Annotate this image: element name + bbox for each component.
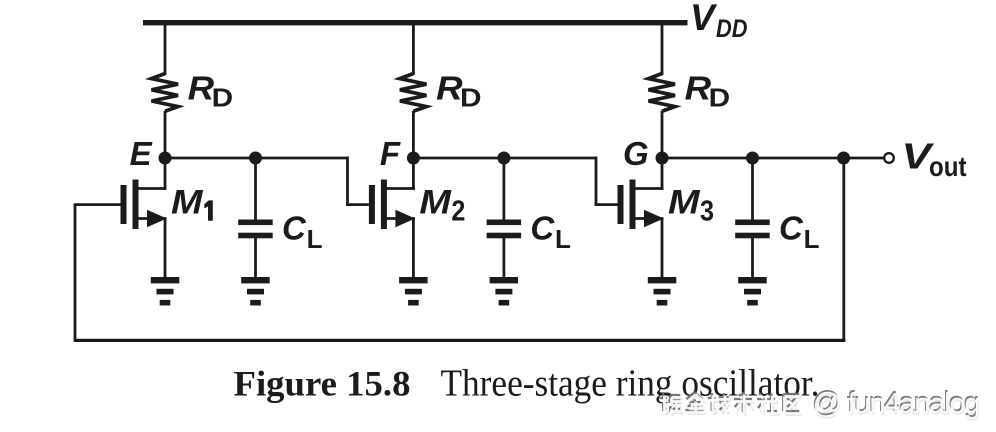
- watermark latin text @ fun4analog: [812, 386, 982, 422]
- transistor M3 source wire with arrow: [635, 210, 664, 278]
- svg-text:M: M: [419, 184, 451, 222]
- svg-text:V: V: [690, 0, 718, 38]
- transistor M3 gate bar: [618, 185, 624, 224]
- transistor M2 channel bar: [381, 180, 387, 230]
- ground (M2 source): [399, 277, 428, 306]
- transistor M3 drain wire: [635, 158, 664, 190]
- ground (M1 source): [151, 277, 180, 306]
- transistor M1 source wire with arrow: [138, 210, 167, 278]
- svg-text:R: R: [188, 70, 215, 107]
- label Vout: [902, 135, 967, 182]
- VDD power rail: [143, 20, 688, 25]
- svg-text:M: M: [668, 184, 700, 222]
- wire VDD rail to resistor R1: [164, 22, 167, 75]
- node F junction dot: [407, 152, 420, 165]
- node E junction dot: [159, 152, 172, 165]
- transistor M2 gate bar: [369, 185, 375, 224]
- transistor M3 channel bar: [630, 180, 636, 230]
- svg-text:M: M: [171, 184, 203, 222]
- ground (M3 source): [648, 277, 677, 306]
- svg-text:L: L: [804, 224, 820, 254]
- wire capacitor CL bottom plate to ground: [751, 238, 754, 278]
- label CL of stage 2: [530, 210, 571, 255]
- wire resistor R2 to node F: [412, 111, 415, 158]
- capacitor CL of stage 1: [238, 220, 273, 239]
- svg-text:C: C: [779, 210, 804, 247]
- svg-text:C: C: [282, 210, 307, 247]
- wire node E to gate of M2: [346, 157, 369, 205]
- svg-text:D: D: [460, 83, 482, 113]
- wire node F to capacitor CL top plate: [502, 158, 505, 220]
- wire node G horizontal: [662, 157, 884, 160]
- output terminal open circle: [884, 153, 894, 163]
- wire capacitor CL bottom plate to ground: [502, 238, 505, 278]
- svg-text:E: E: [130, 135, 153, 172]
- wire node G to capacitor CL top plate: [751, 158, 754, 220]
- junction dot node F to CL: [497, 152, 510, 165]
- transistor M1 channel bar: [133, 180, 139, 230]
- label CL of stage 1: [282, 210, 323, 255]
- wire node F horizontal: [413, 157, 596, 160]
- wire node E horizontal: [165, 157, 348, 160]
- wire VDD rail to resistor R2: [412, 22, 415, 75]
- svg-text:G: G: [623, 135, 649, 172]
- resistor R2 (RD): [400, 74, 427, 112]
- svg-text:D: D: [212, 83, 234, 113]
- label M2: [419, 184, 465, 228]
- net label VDD: [690, 0, 748, 43]
- wire VDD rail to resistor R3: [661, 22, 664, 75]
- resistor R3 (RD): [649, 74, 676, 112]
- label RD of stage 3: [685, 70, 730, 113]
- label M1: [171, 184, 213, 222]
- junction dot node G to CL: [746, 152, 759, 165]
- svg-text:D: D: [709, 83, 731, 113]
- transistor M1 drain wire: [138, 158, 167, 190]
- junction dot node E to CL: [249, 152, 262, 165]
- label RD of stage 1: [188, 70, 233, 113]
- wire resistor R3 to node G: [661, 111, 664, 158]
- svg-text:C: C: [530, 210, 555, 247]
- junction dot feedback tap on node G: [837, 152, 850, 165]
- transistor M2 source wire with arrow: [386, 210, 415, 278]
- wire capacitor CL bottom plate to ground: [254, 238, 257, 278]
- ground (CL stage 3): [738, 277, 767, 306]
- resistor R1 (RD): [152, 74, 179, 112]
- capacitor CL of stage 3: [735, 220, 770, 239]
- wire node E to capacitor CL top plate: [254, 158, 257, 220]
- wire resistor R1 to node E: [164, 111, 167, 158]
- svg-text:@ fun4analog: @ fun4analog: [813, 388, 981, 420]
- svg-text:L: L: [555, 224, 571, 254]
- label M3: [668, 184, 714, 228]
- label RD of stage 2: [436, 70, 481, 113]
- svg-text:R: R: [685, 70, 712, 107]
- svg-text:DD: DD: [716, 15, 748, 43]
- ground (CL stage 1): [241, 277, 270, 306]
- transistor M1 gate bar: [121, 185, 127, 224]
- svg-text:3: 3: [700, 196, 714, 228]
- svg-text:Figure 15.8: Figure 15.8: [234, 364, 411, 404]
- capacitor CL of stage 2: [487, 220, 521, 239]
- svg-text:R: R: [436, 70, 463, 107]
- node G junction dot: [656, 152, 669, 165]
- svg-text:F: F: [380, 135, 401, 172]
- feedback wire from node G to gate of M1: [74, 158, 846, 342]
- svg-text:2: 2: [451, 196, 465, 228]
- svg-text:out: out: [929, 151, 967, 182]
- transistor M2 drain wire: [386, 158, 415, 190]
- wire node F to gate of M3: [595, 157, 618, 205]
- ground (CL stage 2): [490, 277, 518, 306]
- label CL of stage 3: [779, 210, 820, 255]
- svg-text:L: L: [307, 224, 323, 254]
